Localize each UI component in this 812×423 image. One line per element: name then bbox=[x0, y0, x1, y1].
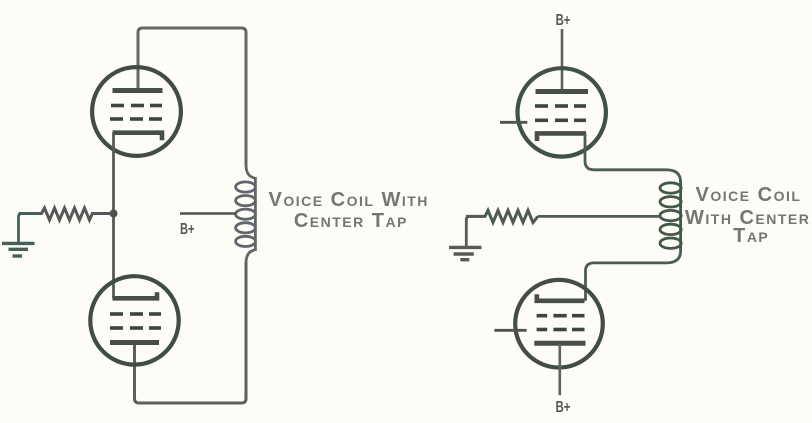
wire: plate of V4 to B+ bbox=[558, 343, 561, 395]
label: VOICE COIL WITH CENTER TAP (right) bbox=[685, 184, 810, 247]
svg-text:B+: B+ bbox=[556, 12, 571, 29]
plate of V1 bbox=[113, 88, 163, 93]
plate of V3 bbox=[536, 89, 589, 94]
wire: cathode of V3 to coil L2 top bbox=[585, 133, 681, 182]
junction: cathode node dot bbox=[110, 210, 118, 218]
cathode of V3 bbox=[537, 133, 586, 141]
svg-text:Tap: Tap bbox=[733, 225, 769, 247]
svg-text:B+: B+ bbox=[556, 399, 571, 416]
label B+ (right bottom) bbox=[556, 399, 571, 416]
wire: plate of V1 up and over to coil L1 top bbox=[138, 28, 246, 166]
wire: grid lead of V4 bbox=[494, 329, 526, 332]
grid of V4 bbox=[537, 316, 585, 330]
wire: B+ to plate of V3 bbox=[561, 29, 564, 91]
wire: cathode bus V1 to V2 bbox=[112, 133, 115, 299]
tube V4 envelope bbox=[515, 280, 603, 368]
tube V1 envelope bbox=[92, 67, 181, 156]
svg-text:Voice Coil With: Voice Coil With bbox=[269, 189, 429, 211]
plate of V2 bbox=[110, 340, 159, 345]
coil L1 voice coil bbox=[236, 164, 256, 264]
grid of V2 bbox=[110, 314, 161, 328]
label B+ (right top) bbox=[556, 12, 571, 29]
wire: B+ center tap to coil L1 bbox=[180, 212, 236, 215]
wire: coil L2 bottom to cathode of V4 bbox=[586, 248, 681, 301]
svg-text:Voice Coil: Voice Coil bbox=[696, 184, 802, 206]
label B+ (left) bbox=[180, 221, 195, 238]
ground (right circuit) bbox=[449, 216, 485, 259]
wire: plate of V2 down and over to coil L1 bottom bbox=[135, 262, 247, 403]
grid of V3 bbox=[535, 106, 586, 120]
cathode of V2 bbox=[113, 292, 158, 298]
resistor R1 bbox=[19, 208, 114, 220]
tube V3 envelope bbox=[518, 68, 606, 156]
label: VOICE COIL WITH CENTER TAP (left) bbox=[269, 189, 429, 232]
tube V2 envelope bbox=[90, 276, 178, 364]
cathode of V4 bbox=[537, 294, 585, 301]
wire: grid lead of V3 bbox=[500, 121, 527, 124]
wire: center tap of L2 to resistor R2 bbox=[538, 215, 660, 218]
svg-text:B+: B+ bbox=[180, 221, 195, 238]
coil L2 voice coil bbox=[660, 181, 681, 249]
plate of V4 bbox=[534, 341, 585, 346]
cathode of V1 bbox=[113, 133, 163, 141]
ground (left circuit) bbox=[2, 214, 42, 257]
grid of V1 bbox=[110, 106, 162, 120]
svg-text:Center Tap: Center Tap bbox=[294, 210, 408, 232]
resistor R2 bbox=[466, 210, 538, 222]
